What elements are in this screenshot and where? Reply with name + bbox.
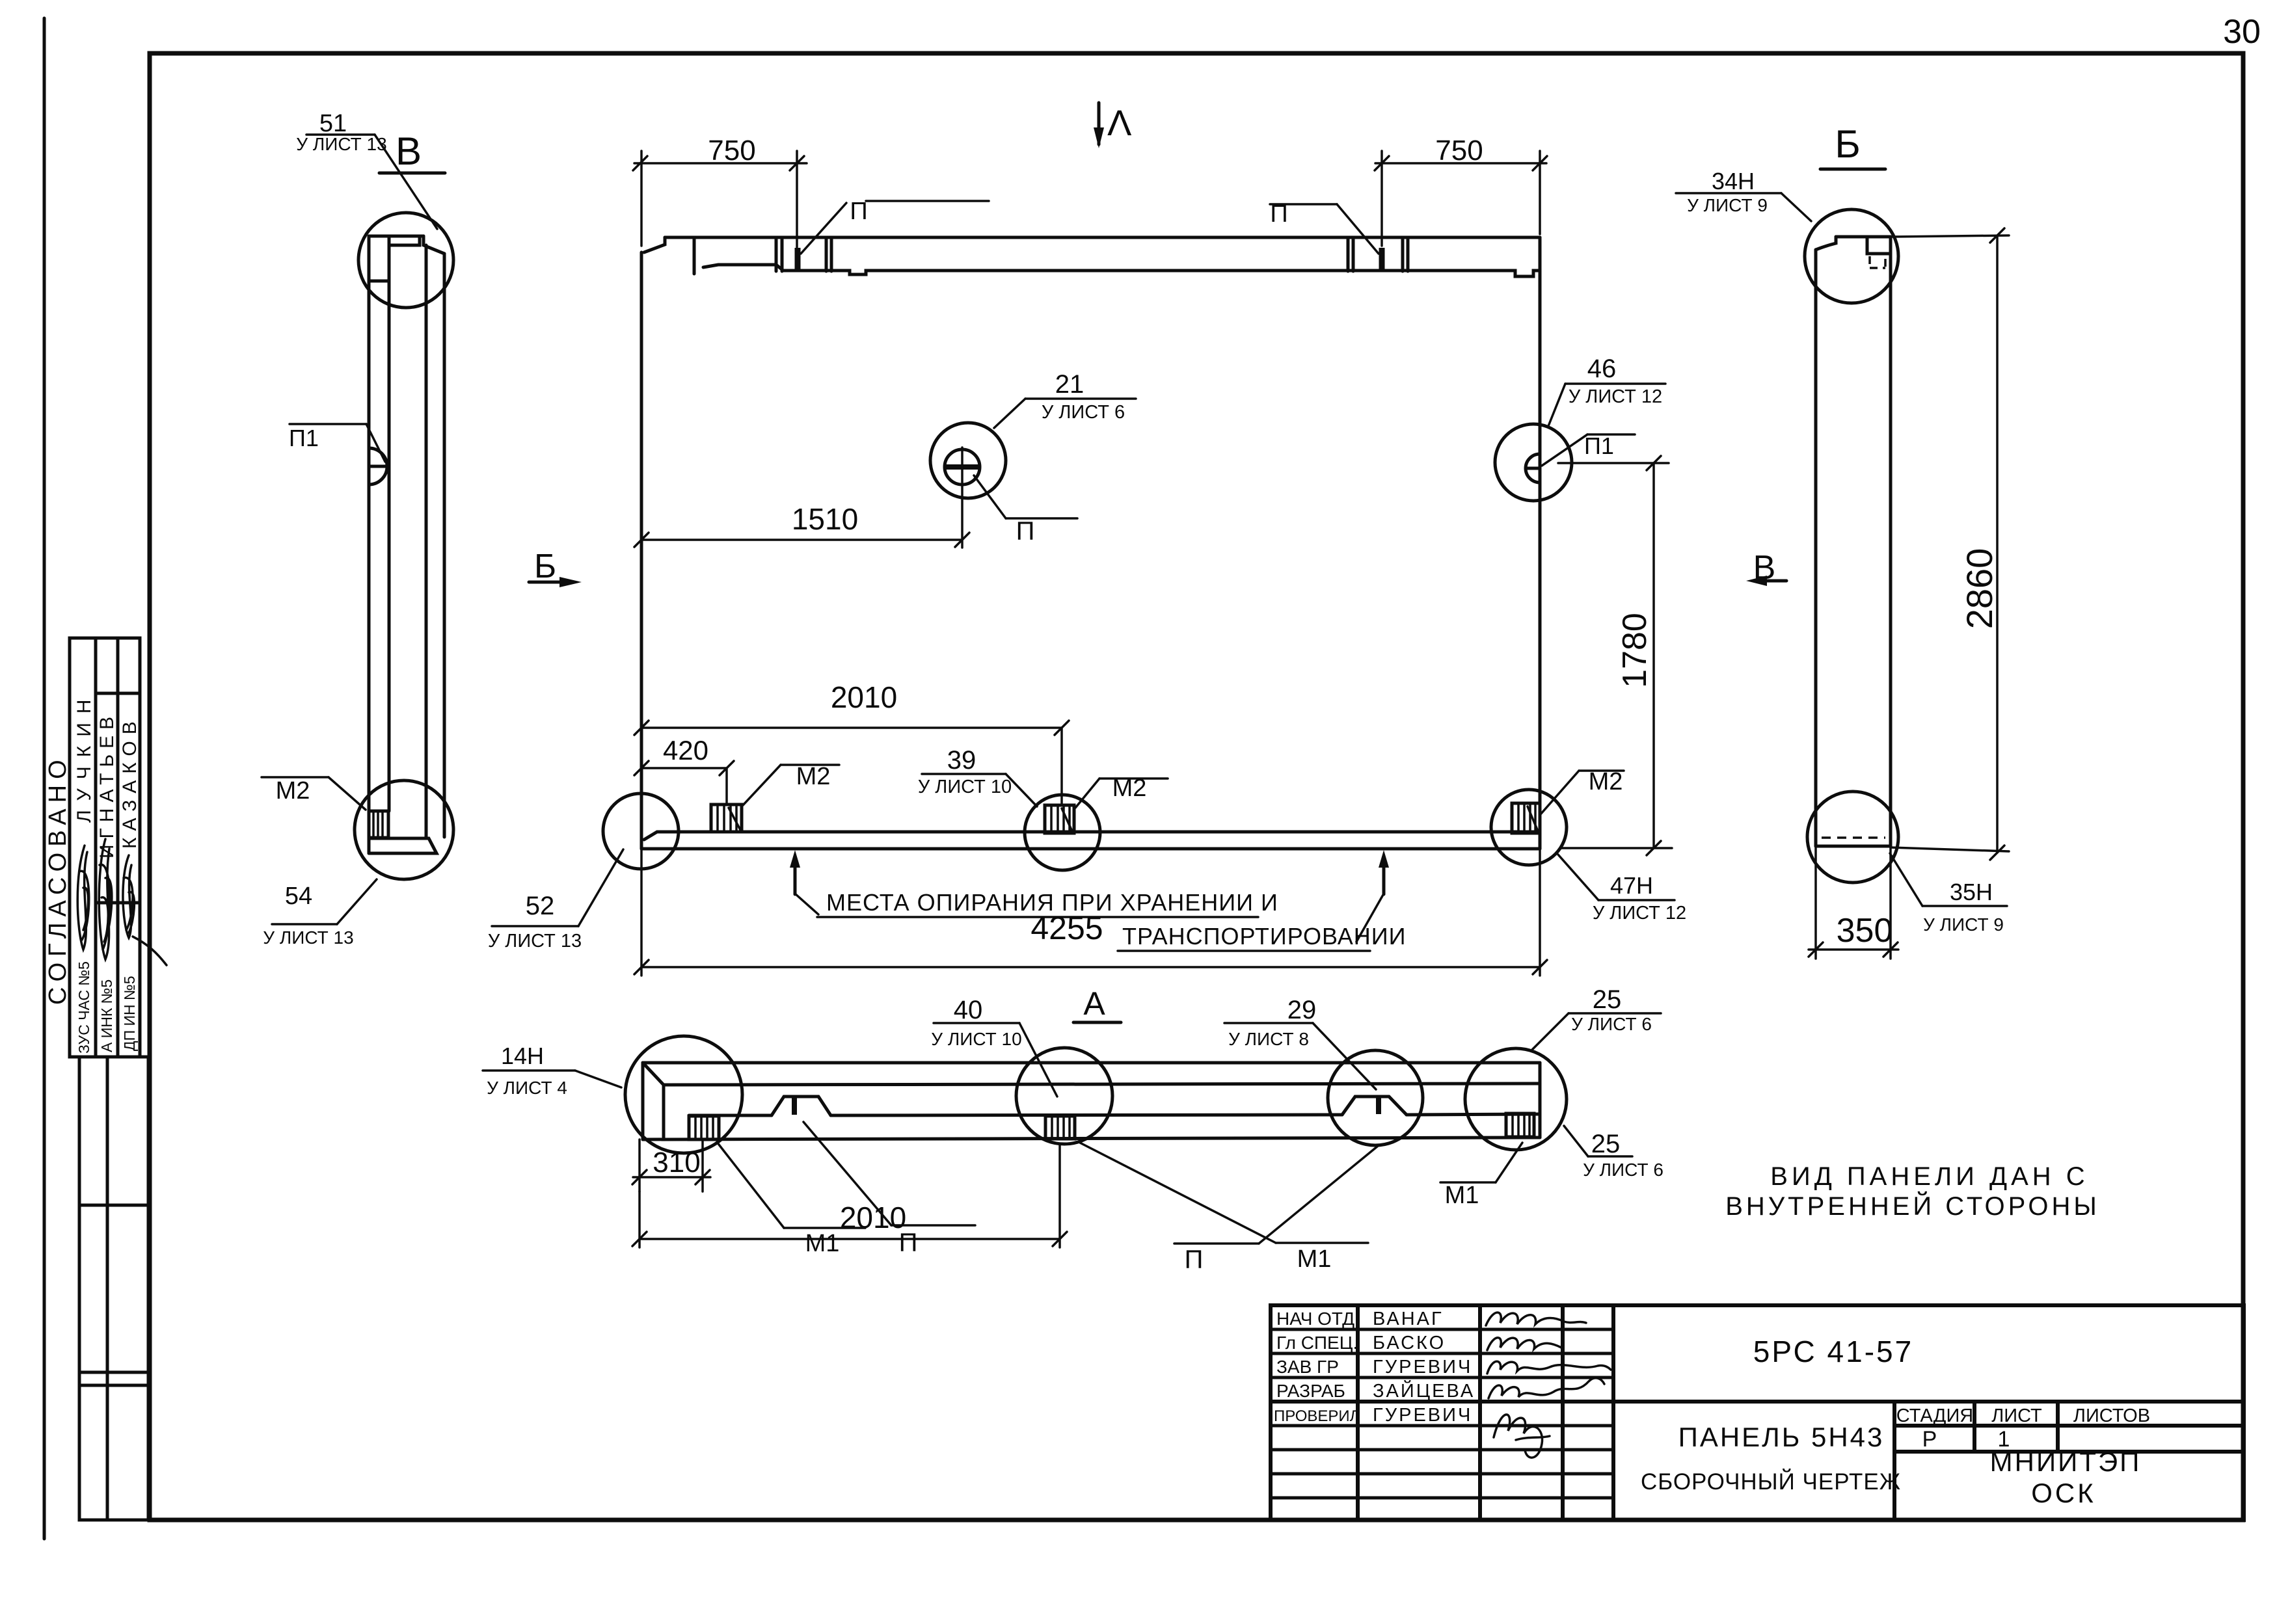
svg-text:ЛИСТ: ЛИСТ	[1991, 1405, 2042, 1426]
signature row4	[1488, 1378, 1604, 1398]
signature row1	[1486, 1312, 1586, 1325]
svg-text:35Н: 35Н	[1950, 879, 1993, 905]
svg-text:30: 30	[2223, 13, 2261, 51]
svg-text:40: 40	[954, 996, 983, 1024]
callout 21 У ЛИСТ 6	[994, 370, 1136, 428]
lower strip box	[79, 1057, 148, 1520]
approval signatures scribble	[77, 845, 89, 950]
B column top edge	[1836, 235, 1891, 239]
A bar left corner slant	[643, 1063, 664, 1085]
svg-text:1780: 1780	[1616, 613, 1654, 688]
node P trapezoid left	[772, 1097, 831, 1115]
svg-text:ЛУЧКИН: ЛУЧКИН	[74, 691, 95, 823]
panel right edge	[1539, 237, 1542, 849]
svg-text:У ЛИСТ 13: У ЛИСТ 13	[296, 134, 386, 154]
svg-text:У ЛИСТ 4: У ЛИСТ 4	[487, 1078, 567, 1098]
B column bottom edge	[1816, 845, 1891, 848]
band joint double line a	[775, 237, 778, 271]
svg-text:750: 750	[708, 135, 755, 166]
svg-text:У ЛИСТ 10: У ЛИСТ 10	[931, 1029, 1021, 1049]
B column left edge	[1814, 250, 1818, 846]
lower strip column line	[106, 1057, 109, 1520]
callout 39 У ЛИСТ 10	[918, 746, 1037, 806]
callout 47Н У ЛИСТ 12	[1558, 855, 1686, 924]
svg-text:ВАНАГ: ВАНАГ	[1373, 1309, 1444, 1329]
callout М2 right	[1541, 768, 1624, 814]
svg-text:У ЛИСТ 10: У ЛИСТ 10	[918, 777, 1012, 797]
callout П top-right	[1270, 200, 1379, 254]
svg-text:А ИНК №5: А ИНК №5	[98, 979, 115, 1052]
svg-text:ЗАВ ГР: ЗАВ ГР	[1276, 1357, 1339, 1377]
A bar left edge	[641, 1063, 645, 1139]
svg-text:2010: 2010	[840, 1201, 906, 1234]
panel bottom band top line	[644, 832, 1540, 840]
svg-text:У ЛИСТ 13: У ЛИСТ 13	[488, 931, 582, 952]
strip row divider	[96, 901, 140, 905]
V column outer right edge	[443, 254, 446, 837]
leader М2	[329, 777, 366, 810]
svg-text:ПАНЕЛЬ 5Н43: ПАНЕЛЬ 5Н43	[1678, 1422, 1885, 1452]
panel left edge	[640, 252, 643, 849]
lower strip divider 3	[79, 1384, 148, 1387]
detail circle 25	[1465, 1048, 1567, 1150]
detail circle 54	[355, 780, 453, 879]
detail circle 39 (bottom middle)	[1025, 795, 1100, 870]
svg-text:У ЛИСТ 9: У ЛИСТ 9	[1687, 195, 1768, 215]
svg-text:У ЛИСТ 12: У ЛИСТ 12	[1569, 386, 1662, 407]
strip column line 1	[94, 638, 98, 1057]
svg-text:Гл СПЕЦ.: Гл СПЕЦ.	[1276, 1333, 1358, 1353]
svg-text:21: 21	[1055, 370, 1084, 399]
node P1 half-circle	[369, 448, 387, 485]
V column top inner notch line	[389, 236, 420, 245]
B column dashed notch	[1870, 256, 1885, 268]
svg-text:МНИИТЭП: МНИИТЭП	[1990, 1446, 2142, 1477]
B column top inner step	[1867, 237, 1891, 254]
callout М2 left	[743, 763, 839, 805]
dimension 750 left	[633, 135, 807, 247]
detail circle 52 (bottom-left corner)	[603, 793, 679, 869]
node P hole centerline	[961, 447, 963, 548]
A bar second line	[664, 1084, 1540, 1085]
dimension 750 right	[1375, 135, 1547, 246]
signature row2	[1487, 1338, 1561, 1350]
svg-text:У ЛИСТ 12: У ЛИСТ 12	[1593, 903, 1686, 924]
svg-text:34Н: 34Н	[1712, 168, 1755, 194]
B column right edge	[1889, 237, 1893, 846]
signature row3	[1487, 1361, 1611, 1374]
signature row5	[1494, 1415, 1550, 1458]
svg-text:ПРОВЕРИЛ: ПРОВЕРИЛ	[1274, 1407, 1360, 1425]
svg-text:14Н: 14Н	[501, 1043, 544, 1069]
svg-text:СОГЛАСОВАНО: СОГЛАСОВАНО	[44, 754, 72, 1005]
svg-text:29: 29	[1287, 996, 1317, 1024]
M2 embed plate middle	[1045, 805, 1074, 833]
svg-text:Λ: Λ	[1107, 102, 1132, 143]
title block verticals	[1356, 1305, 1360, 1520]
main panel view	[603, 237, 1572, 951]
svg-text:ГУРЕВИЧ: ГУРЕВИЧ	[1373, 1357, 1472, 1378]
view direction mark Л	[1094, 102, 1132, 148]
band joint double line c	[1347, 237, 1350, 271]
node P central hole inner circle	[945, 449, 980, 485]
svg-text:39: 39	[947, 746, 977, 775]
svg-text:1510: 1510	[792, 502, 858, 536]
V column top edge	[369, 235, 424, 238]
svg-text:47Н: 47Н	[1610, 872, 1653, 899]
panel top edge	[665, 236, 1540, 239]
svg-text:РАЗРАБ: РАЗРАБ	[1276, 1381, 1345, 1401]
svg-text:У ЛИСТ 6: У ЛИСТ 6	[1571, 1014, 1652, 1034]
svg-text:46: 46	[1587, 354, 1617, 383]
leader 51	[375, 135, 437, 229]
svg-text:ЛИСТОВ: ЛИСТОВ	[2073, 1405, 2150, 1426]
svg-text:ЗАЙЦЕВА: ЗАЙЦЕВА	[1373, 1379, 1475, 1402]
node P central hole outer circle	[930, 423, 1006, 498]
svg-text:Б: Б	[534, 548, 556, 585]
svg-text:52: 52	[526, 892, 555, 920]
svg-text:СТАДИЯ: СТАДИЯ	[1896, 1405, 1973, 1426]
M1 embed plate left	[689, 1116, 719, 1139]
svg-text:БАСКО: БАСКО	[1373, 1333, 1446, 1353]
svg-text:П1: П1	[1584, 433, 1614, 459]
node P1 right half-circle	[1526, 454, 1540, 483]
detail circle 14Н	[625, 1036, 742, 1153]
V column inner right line	[425, 245, 428, 838]
M1 embed plate middle	[1045, 1116, 1075, 1139]
svg-text:У ЛИСТ 8: У ЛИСТ 8	[1228, 1029, 1309, 1049]
leader 54	[337, 879, 377, 924]
svg-text:П1: П1	[289, 425, 319, 451]
svg-text:М1: М1	[1445, 1182, 1479, 1209]
support arrow right	[1382, 859, 1386, 894]
node P hole dash	[945, 464, 980, 470]
view V (left side section)	[262, 110, 453, 948]
detail circle 34Н	[1805, 209, 1898, 303]
band tick	[693, 237, 696, 274]
dimension 420	[634, 735, 734, 805]
dimension 4255	[634, 849, 1547, 976]
dimension 1510	[634, 502, 969, 547]
M1 embed plate right	[1506, 1113, 1534, 1137]
leader П1	[366, 424, 385, 462]
svg-text:25: 25	[1591, 1130, 1621, 1158]
V column top step	[424, 236, 444, 254]
title block	[1271, 1305, 2244, 1520]
svg-text:ВНУТРЕННЕЙ СТОРОНЫ: ВНУТРЕННЕЙ СТОРОНЫ	[1725, 1191, 2100, 1221]
detail circle 29	[1328, 1050, 1423, 1145]
B column dashed bottom line	[1822, 836, 1885, 839]
M2 embed plate left	[711, 805, 742, 832]
svg-text:П: П	[899, 1229, 918, 1257]
svg-text:Р: Р	[1922, 1427, 1937, 1452]
node P mark left	[795, 248, 801, 271]
title block rows	[1271, 1328, 1613, 1331]
svg-text:П: П	[1016, 517, 1035, 546]
svg-text:ДП ИН №5: ДП ИН №5	[121, 976, 138, 1052]
svg-text:А: А	[1083, 985, 1105, 1022]
svg-text:54: 54	[285, 883, 312, 910]
svg-text:КАЗАКОВ: КАЗАКОВ	[119, 715, 141, 849]
callout 52 У ЛИСТ 13	[488, 849, 623, 952]
M2 embed plate (view V)	[369, 811, 388, 838]
M2 embed plate right	[1512, 803, 1540, 833]
svg-text:5РС 41-57: 5РС 41-57	[1753, 1335, 1913, 1368]
A bar third line segments	[689, 1114, 772, 1117]
svg-text:ИГНАТЬЕВ: ИГНАТЬЕВ	[96, 711, 118, 859]
top band bottom line	[703, 265, 1540, 276]
svg-text:У ЛИСТ 13: У ЛИСТ 13	[263, 927, 353, 948]
dimension 1780	[1558, 456, 1672, 855]
svg-text:ГУРЕВИЧ: ГУРЕВИЧ	[1373, 1405, 1472, 1426]
V column small tick	[369, 280, 389, 283]
strip names top line	[96, 692, 140, 695]
detail circle 35Н	[1807, 792, 1898, 883]
svg-text:750: 750	[1435, 135, 1483, 166]
svg-text:420: 420	[663, 735, 708, 765]
svg-text:310: 310	[653, 1147, 700, 1178]
svg-text:2860: 2860	[1959, 548, 2000, 630]
svg-text:ТРАНСПОРТИРОВАНИИ: ТРАНСПОРТИРОВАНИИ	[1122, 923, 1407, 950]
V column bottom foot	[369, 838, 437, 853]
svg-text:4255: 4255	[1030, 910, 1103, 946]
band joint double line d	[1401, 237, 1405, 271]
node P mark right	[1379, 248, 1385, 271]
V column inner left line	[388, 236, 391, 811]
svg-text:У ЛИСТ 9: У ЛИСТ 9	[1923, 914, 2004, 935]
V column outer left edge	[368, 236, 371, 853]
svg-text:ОСК: ОСК	[2031, 1478, 2095, 1508]
A bar top edge	[643, 1061, 1540, 1065]
svg-text:У ЛИСТ 6: У ЛИСТ 6	[1042, 402, 1125, 423]
callout П center	[974, 475, 1077, 546]
lower strip divider 1	[79, 1204, 148, 1207]
view B (right side section)	[1676, 122, 2009, 959]
A bar right edge	[1539, 1063, 1542, 1138]
svg-text:В: В	[396, 129, 422, 173]
svg-text:П: П	[850, 198, 867, 225]
detail circle 47Н (bottom right)	[1491, 790, 1567, 865]
callout 46 У ЛИСТ 12	[1548, 354, 1665, 426]
section A (bottom)	[483, 985, 1664, 1274]
lower strip divider 2	[79, 1371, 148, 1374]
svg-text:М2: М2	[276, 777, 310, 805]
support arrow left	[794, 859, 797, 894]
svg-text:М1: М1	[805, 1230, 840, 1257]
dimension 2010 main	[634, 680, 1069, 805]
svg-text:350: 350	[1837, 912, 1893, 950]
section mark Б left	[529, 548, 582, 587]
detail circle 51	[358, 213, 453, 308]
A bar bottom edge	[643, 1138, 1540, 1139]
band joint double line b	[825, 237, 828, 271]
svg-text:П: П	[1185, 1245, 1204, 1274]
svg-text:51: 51	[319, 110, 347, 137]
callout М2 middle	[1075, 775, 1168, 808]
node P trapezoid right	[1342, 1097, 1407, 1115]
svg-text:Б: Б	[1835, 122, 1860, 166]
svg-text:У ЛИСТ 6: У ЛИСТ 6	[1583, 1160, 1664, 1180]
strip column line 2	[116, 638, 120, 1057]
svg-text:СБОРОЧНЫЙ ЧЕРТЕЖ: СБОРОЧНЫЙ ЧЕРТЕЖ	[1641, 1469, 1901, 1495]
svg-text:М2: М2	[1589, 768, 1623, 795]
detail circle 46	[1495, 424, 1572, 501]
panel top-left step	[644, 237, 665, 252]
svg-text:ЗУС ЧАС №5: ЗУС ЧАС №5	[75, 961, 92, 1054]
svg-text:25: 25	[1593, 985, 1622, 1014]
svg-text:М1: М1	[1297, 1245, 1332, 1273]
svg-text:М2: М2	[796, 763, 831, 790]
callout П1 right	[1542, 433, 1635, 466]
B column top-left step	[1816, 237, 1836, 250]
callout П top-left	[801, 198, 989, 254]
svg-text:2010: 2010	[831, 680, 897, 714]
A bar inner vertical	[662, 1085, 666, 1139]
section mark В right	[1746, 549, 1786, 587]
approval strip outer box	[44, 638, 167, 1520]
panel bottom band bottom line	[641, 847, 1540, 851]
detail circle 40	[1016, 1048, 1112, 1144]
svg-text:НАЧ ОТД: НАЧ ОТД	[1276, 1309, 1354, 1329]
svg-text:ВИД ПАНЕЛИ ДАН С: ВИД ПАНЕЛИ ДАН С	[1770, 1162, 2088, 1191]
label В underline	[379, 172, 445, 175]
page edge line	[43, 18, 46, 1539]
